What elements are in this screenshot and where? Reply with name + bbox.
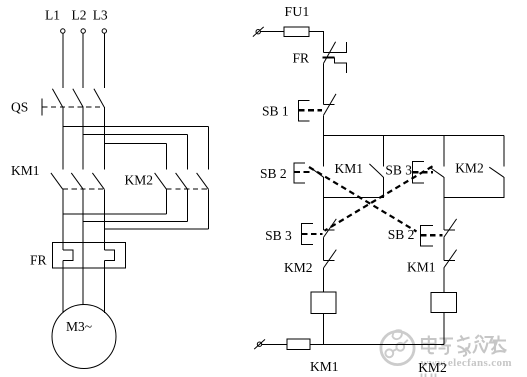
node L3 (93, 7, 108, 33)
wire L1 to QS (62, 33, 64, 88)
wire bottom rail (310, 344, 444, 346)
fuse FU2 body (287, 339, 310, 350)
svg-text:KM2: KM2 (455, 161, 484, 176)
wire top bus (324, 135, 504, 137)
switch QS pole 2 blade (73, 89, 83, 107)
wire FR to motor phase1 (62, 260, 64, 313)
svg-text:QS: QS (11, 100, 28, 115)
wire phase2 QS to KM1 (82, 107, 84, 169)
svg-text:M3~: M3~ (66, 319, 92, 334)
wire coil KM1 to bottom rail (323, 314, 325, 345)
contact KM1 aux NO blade (369, 164, 383, 177)
wire terminal to fuse2 (262, 344, 287, 346)
thermal relay FR heater phase3 (104, 250, 114, 260)
pushbutton SB2 actuator (294, 163, 311, 183)
linkage SB3 dashed diagonal (325, 166, 433, 230)
wire KM1 out3 to FR (103, 189, 105, 250)
svg-text:FR: FR (30, 253, 47, 268)
svg-text:FR: FR (293, 51, 310, 66)
wire KM2 out1 to phase1 (63, 213, 167, 215)
wire right mid rail (444, 197, 504, 199)
thermal contact FR symbol (322, 42, 346, 73)
contact KM2 interlock NC (324, 250, 337, 268)
wire KM1 NC to coil KM2 (443, 268, 445, 292)
linkage SB2 dashed diagonal (309, 167, 417, 232)
svg-text:FU1: FU1 (285, 4, 310, 19)
contactor KM2 pole2 blade (176, 173, 188, 189)
pushbutton SB1 NC contact (324, 94, 337, 115)
wire bus drop SB3 (443, 136, 445, 167)
wire KM2 aux to right rail (503, 177, 505, 198)
switch QS pole 3 blade (94, 89, 104, 107)
wire SB3 NC to KM2 NC (323, 237, 325, 260)
svg-text:SB 1: SB 1 (262, 104, 289, 119)
contactor KM1 pole3 blade (92, 173, 104, 189)
wire FR to motor phase3 (103, 260, 105, 313)
wire KM2 pole3 drop (208, 127, 210, 170)
wire KM2 out3 drop (208, 189, 210, 229)
coil KM1 body (311, 292, 336, 313)
pushbutton SB1 actuator (299, 101, 322, 122)
wire crossover L2 to KM2 pole2 (83, 134, 187, 136)
wire KM1 out1 to FR (62, 189, 64, 250)
svg-text:KM1: KM1 (407, 260, 436, 275)
wire bus drop KM2 aux (503, 136, 505, 167)
wire right rail to SB2 NC (443, 198, 445, 231)
wire bus drop SB2 (323, 136, 325, 167)
switch QS pole 1 blade (52, 89, 62, 107)
svg-text:L3: L3 (93, 7, 108, 22)
wire terminal to FU1 (260, 31, 284, 33)
wire KM1 out2 through FR to motor (82, 189, 84, 305)
wire SB1 to bus (323, 115, 325, 136)
svg-text:KM2: KM2 (418, 360, 447, 375)
svg-text:KM2: KM2 (284, 260, 313, 275)
pushbutton SB3 NO contact blade (429, 167, 444, 177)
wire FU1 to corner (309, 32, 324, 53)
wire FR to SB1 (323, 63, 325, 104)
wire KM2 out3 to phase3 (104, 228, 208, 230)
thermal relay FR box (53, 242, 126, 268)
contactor KM1 pole2 blade (71, 173, 83, 189)
contactor KM2 pole1 blade (155, 173, 167, 189)
contactor KM2 pole3 blade (197, 173, 209, 189)
wire KM2 out2 drop (187, 189, 189, 221)
svg-text:SB 3: SB 3 (265, 228, 292, 243)
switch QS linkage dashed (42, 106, 104, 108)
svg-text:L1: L1 (45, 7, 60, 22)
wire KM2 pole1 drop (166, 144, 168, 170)
pushbutton SB3 NC contact (324, 219, 337, 238)
switch QS handle bar (41, 98, 43, 115)
wire crossover L3 to KM2 pole1 (104, 143, 166, 145)
node L1 (45, 7, 65, 33)
svg-text:KM2: KM2 (125, 173, 154, 188)
wire KM2 NC to coil KM1 (323, 268, 325, 292)
contactor KM1 linkage dashed (63, 188, 105, 190)
wire bus drop KM1 aux (382, 136, 384, 167)
wire KM2 out2 to phase2 (83, 221, 187, 223)
wire SB3 to right rail (443, 177, 445, 198)
pushbutton SB3 NC actuator (301, 223, 322, 244)
svg-text:L2: L2 (72, 7, 87, 22)
pushbutton SB2 NC actuator (421, 226, 443, 246)
wire L3 to QS (103, 33, 105, 88)
pushbutton SB3 actuator (412, 162, 433, 183)
wire KM1 aux to left rail (382, 177, 384, 198)
svg-text:SB 3: SB 3 (385, 163, 412, 178)
svg-text:KM1: KM1 (335, 161, 364, 176)
svg-text:SB 2: SB 2 (388, 227, 415, 242)
wire left mid rail (324, 197, 384, 199)
watermark elecfans logo and text (381, 330, 512, 377)
wire SB2 to left rail (323, 177, 325, 198)
contactor KM2 linkage dashed (167, 188, 209, 190)
wire KM2 out1 drop (166, 189, 168, 214)
wire left rail to SB3 NC (323, 198, 325, 231)
svg-text:KM1: KM1 (11, 163, 40, 178)
terminal top control (253, 27, 264, 37)
contact KM1 interlock NC (444, 250, 457, 268)
svg-text:KM1: KM1 (310, 359, 339, 374)
wire phase1 QS to KM1 (62, 107, 64, 169)
contact KM2 aux NO blade (489, 167, 504, 177)
wire L2 to QS (82, 33, 84, 88)
wire phase3 QS to KM1 (103, 107, 105, 169)
wire KM2 pole2 drop (187, 135, 189, 170)
fuse FU1 body (284, 27, 309, 37)
pushbutton SB2 NC contact (444, 219, 457, 238)
terminal bottom control (254, 339, 265, 349)
pushbutton SB2 NO contact blade (310, 167, 324, 177)
svg-text:SB 2: SB 2 (260, 166, 287, 181)
wire crossover L1 to KM2 pole3 (63, 126, 209, 128)
coil KM2 body (431, 292, 456, 312)
wire coil KM2 to bottom rail (443, 312, 445, 344)
node L2 (72, 7, 87, 33)
wire SB2 NC to KM1 NC (443, 237, 445, 260)
motor M3 circle (52, 305, 116, 369)
thermal relay FR heater phase1 (63, 250, 73, 260)
contactor KM1 pole1 blade (51, 173, 63, 189)
